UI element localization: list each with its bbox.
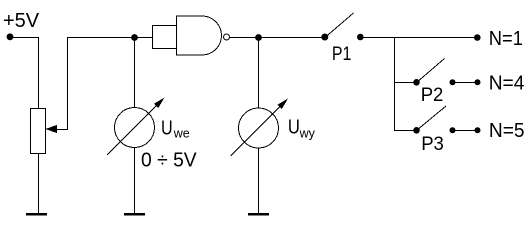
wire wiper to top rail [55, 38, 153, 130]
svg-text:0 ÷ 5V: 0 ÷ 5V [141, 149, 197, 171]
wire NAND output to switch P1 [230, 37, 326, 39]
wire +5V dot to potentiometer top [10, 38, 39, 109]
wire voltmeter Uwy bottom to ground [258, 148, 260, 214]
switch P1 left contact dot [321, 34, 328, 41]
svg-text:N=5: N=5 [489, 120, 525, 142]
ground (right, under Uwy) [248, 213, 269, 215]
switch P2 right contact dot [450, 79, 456, 85]
switch P1 right contact dot [357, 34, 364, 41]
NAND gate U1 body [177, 16, 222, 55]
svg-text:+5V: +5V [3, 10, 40, 32]
wire branch trunk down from top rail [395, 38, 417, 131]
svg-text:N=4: N=4 [489, 73, 525, 95]
switch P2 blade [417, 59, 445, 83]
potentiometer wiper arrow [46, 125, 58, 133]
svg-text:N=1: N=1 [489, 28, 523, 50]
node B (output node) dot [255, 34, 262, 41]
node N=4 terminal dot [475, 79, 481, 85]
svg-text:P3: P3 [421, 134, 444, 155]
svg-text:we: we [173, 127, 190, 141]
switch P3 blade [417, 106, 447, 131]
svg-text:U: U [161, 118, 173, 140]
switch P2 left contact dot [413, 79, 420, 86]
wire P1 to N=1 terminal [361, 37, 478, 39]
svg-text:U: U [288, 117, 300, 139]
wire node B down to voltmeter Uwy [258, 38, 260, 109]
wire P3 to N=5 terminal [453, 130, 478, 132]
voltmeter Uwy body [239, 108, 279, 148]
potentiometer R1 body [31, 109, 46, 154]
voltmeter Uwe body [115, 108, 155, 148]
wire potentiometer bottom to ground [38, 154, 40, 214]
svg-text:P1: P1 [332, 44, 352, 65]
NAND gate U1 input shorting rectangle [153, 26, 177, 49]
switch P3 left contact dot [413, 127, 420, 134]
svg-text:P2: P2 [421, 85, 444, 106]
switch P3 right contact dot [450, 127, 456, 133]
voltmeter Uwe adjustment arrow [107, 105, 157, 155]
node +5V supply dot [7, 33, 14, 40]
svg-text:wy: wy [299, 127, 316, 141]
node A (input node) dot [131, 34, 138, 41]
wire P2 to N=4 terminal [453, 82, 478, 84]
NAND gate U1 output inversion bubble [224, 34, 230, 40]
voltmeter Uwy adjustment arrow [231, 106, 281, 156]
wire node A down to voltmeter Uwe [134, 38, 136, 108]
node N=5 terminal dot [475, 127, 481, 133]
switch P1 blade [326, 13, 354, 37]
ground (left, under potentiometer) [26, 213, 47, 215]
ground (middle, under Uwe) [124, 213, 145, 215]
wire branch to P2 [395, 82, 417, 84]
node N=1 terminal dot [474, 34, 481, 41]
wire voltmeter Uwe bottom to ground [134, 148, 136, 214]
